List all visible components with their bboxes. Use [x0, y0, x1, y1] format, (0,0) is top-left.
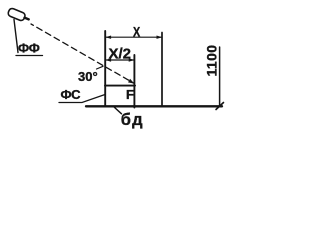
svg-text:бд: бд [121, 111, 144, 129]
svg-text:ФФ: ФФ [18, 41, 40, 56]
svg-text:X/2: X/2 [109, 46, 132, 63]
svg-text:1100: 1100 [203, 45, 219, 77]
svg-text:ФС: ФС [61, 87, 82, 102]
svg-text:F: F [126, 87, 134, 102]
svg-text:30°: 30° [78, 69, 98, 84]
svg-text:X: X [133, 24, 141, 40]
